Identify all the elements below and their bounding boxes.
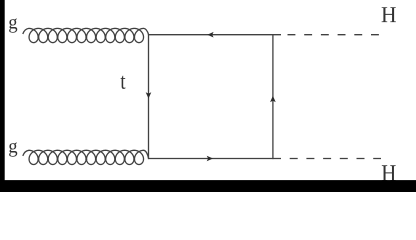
bottom black margin bar — [0, 180, 416, 192]
wire: left fermion propagator of quark box — [148, 34, 150, 159]
arrow on bottom fermion line (pointing right) — [207, 156, 213, 162]
higgs dashed propagator (top H) — [273, 34, 379, 36]
gluon g2 (bottom incoming gluon curly line) — [23, 150, 149, 164]
arrow on top fermion line (pointing left) — [207, 32, 213, 38]
gluon g1 (top incoming gluon curly line) — [23, 28, 149, 42]
wire: bottom fermion propagator of quark box — [149, 158, 273, 160]
arrow on left fermion line (pointing down) — [146, 92, 152, 98]
arrow on right fermion line (pointing up) — [270, 96, 276, 102]
wire: right fermion propagator of quark box — [272, 34, 274, 159]
left black margin bar — [0, 0, 5, 192]
wire: top fermion propagator of quark box — [149, 34, 273, 36]
label g (bottom gluon) — [9, 142, 17, 156]
label t (top quark in loop) — [121, 76, 126, 89]
higgs dashed propagator (bottom H) — [273, 158, 381, 160]
label g (top gluon) — [9, 18, 17, 32]
label H (top Higgs) — [382, 7, 396, 22]
label H (bottom Higgs) — [382, 165, 396, 181]
